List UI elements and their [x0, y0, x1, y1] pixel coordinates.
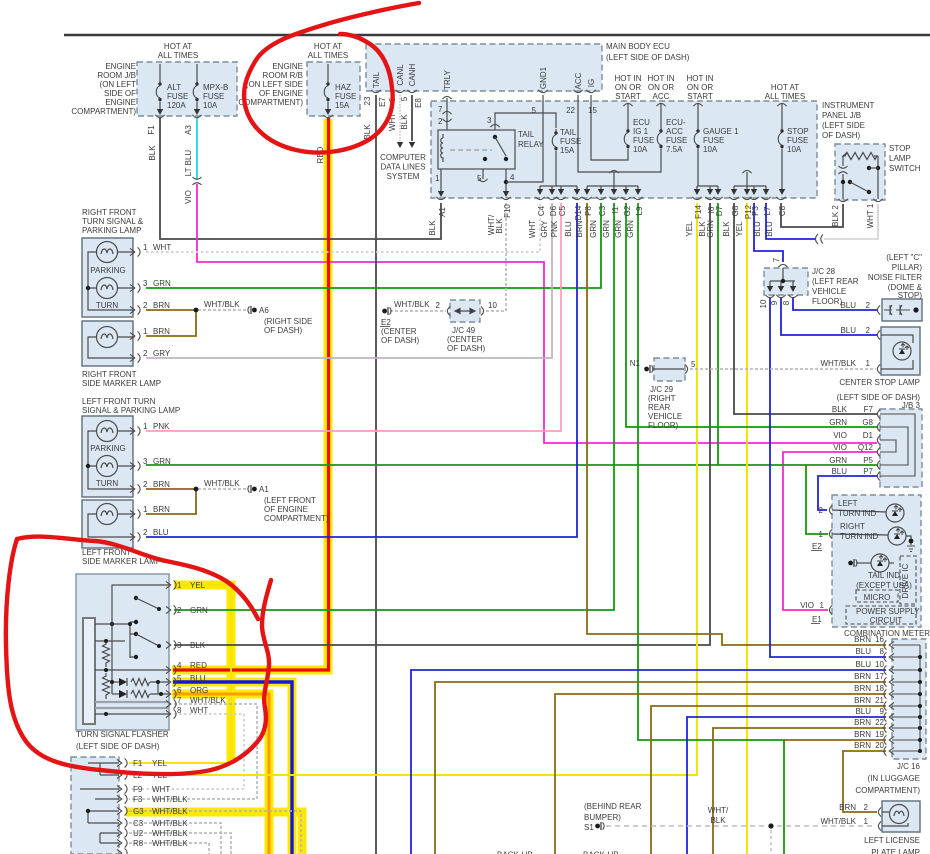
wire GRN D7 riser — [717, 203, 719, 465]
svg-text:PILLAR): PILLAR) — [892, 263, 923, 272]
wire WHT/BLK C3 — [129, 823, 221, 854]
svg-text:BLK: BLK — [495, 218, 504, 234]
relay coil — [441, 134, 443, 162]
svg-text:OF DASH): OF DASH) — [822, 131, 861, 140]
power supply box — [846, 606, 916, 624]
wire BLU P3 to J/C28 pin7 — [754, 203, 783, 262]
svg-text:FUSE: FUSE — [703, 136, 724, 145]
bulb marker LF — [97, 504, 118, 525]
svg-text:ECU: ECU — [633, 118, 650, 127]
relay pin3 wire to TAIL fuse — [495, 113, 556, 130]
svg-text:BLK 2: BLK 2 — [831, 205, 840, 227]
wire GRN lamp2 pin3 long row to J/B3 P5 — [146, 464, 877, 466]
svg-text:BRN: BRN — [854, 672, 871, 681]
flasher internal net — [95, 585, 169, 694]
svg-text:G3: G3 — [133, 807, 144, 816]
highlight over YEL flasher wire — [174, 585, 231, 763]
svg-text:ACC: ACC — [666, 127, 683, 136]
svg-text:GRN: GRN — [153, 279, 171, 288]
svg-text:ALT: ALT — [167, 83, 181, 92]
S1 splice symbol — [595, 822, 604, 830]
wire BLU marker2 pin2 to D14 — [146, 203, 577, 537]
pin TRLY — [442, 96, 451, 99]
svg-text:BLK: BLK — [710, 816, 726, 825]
flasher switch1 — [134, 596, 138, 600]
svg-text:22: 22 — [566, 106, 575, 115]
J/B2 internals — [80, 763, 119, 843]
J/B No.2 box bottom-left — [71, 757, 119, 854]
svg-text:5: 5 — [477, 174, 482, 183]
svg-text:F7: F7 — [864, 405, 874, 414]
svg-text:OF DASH): OF DASH) — [264, 326, 303, 335]
svg-text:(IN LUGGAGE: (IN LUGGAGE — [868, 774, 920, 783]
left front turn signal & parking lamp box — [82, 416, 133, 497]
svg-text:WHT/BLK: WHT/BLK — [820, 817, 856, 826]
svg-text:1: 1 — [864, 817, 869, 826]
wire GRN L9 riser down — [638, 203, 784, 854]
svg-text:LAMP: LAMP — [889, 154, 911, 163]
main body ECU box — [366, 44, 602, 91]
svg-text:ECU-: ECU- — [666, 118, 686, 127]
svg-text:P7: P7 — [863, 467, 873, 476]
bulb turn RF — [97, 278, 118, 299]
svg-text:COMPARTMENT): COMPARTMENT) — [238, 98, 303, 107]
svg-text:E7: E7 — [378, 97, 387, 107]
wire YEL P12 riser to bottom — [746, 203, 748, 854]
wire WHT/BLK S1 dotted to license lamp — [606, 825, 876, 827]
instrument panel J/B box — [431, 101, 817, 198]
svg-text:LT BLU: LT BLU — [184, 150, 193, 177]
svg-text:7.5A: 7.5A — [666, 145, 683, 154]
svg-text:BLU: BLU — [855, 707, 871, 716]
wire BRN pin20 to license lamp — [843, 751, 886, 812]
svg-text:COMPARTMENT): COMPARTMENT) — [264, 514, 329, 523]
svg-text:TURN IND: TURN IND — [838, 509, 876, 518]
svg-text:SIDE MARKER LAMP: SIDE MARKER LAMP — [82, 379, 161, 388]
svg-text:(CENTER: (CENTER — [381, 327, 417, 336]
svg-text:2: 2 — [864, 803, 869, 812]
svg-text:RIGHT: RIGHT — [840, 522, 865, 531]
svg-text:C5: C5 — [558, 205, 567, 216]
fuse MPX-B 10A — [196, 64, 198, 80]
svg-text:10A: 10A — [787, 145, 802, 154]
svg-text:19: 19 — [875, 730, 884, 739]
wire WHT flasher pin8 to F9 — [129, 714, 244, 789]
svg-text:BLK: BLK — [722, 221, 731, 237]
wire BLU J/C28 pin10 to J/C16 pin8 — [770, 298, 886, 657]
svg-text:TAIL IND: TAIL IND — [868, 571, 900, 580]
svg-text:HOT IN: HOT IN — [687, 74, 714, 83]
svg-text:ENGINE: ENGINE — [272, 62, 303, 71]
svg-text:ENGINE: ENGINE — [105, 62, 136, 71]
relay dash link — [450, 149, 492, 151]
svg-text:FUSE: FUSE — [560, 137, 581, 146]
svg-text:GRN: GRN — [706, 220, 715, 238]
svg-text:VIO: VIO — [184, 190, 193, 204]
svg-text:PARKING LAMP: PARKING LAMP — [82, 226, 141, 235]
svg-text:(LEFT SIDE OF DASH): (LEFT SIDE OF DASH) — [606, 53, 690, 62]
svg-text:4: 4 — [177, 661, 182, 670]
wire BRN lamp2 pin2 to splice A1 — [146, 488, 196, 490]
fuse STOP — [781, 104, 783, 127]
svg-text:CIRCUIT: CIRCUIT — [870, 616, 903, 625]
svg-text:(LEFT FRONT: (LEFT FRONT — [264, 496, 316, 505]
svg-text:ORG: ORG — [190, 686, 208, 695]
svg-text:HOT IN: HOT IN — [648, 74, 675, 83]
svg-text:A1: A1 — [259, 485, 269, 494]
svg-text:OF ENGINE: OF ENGINE — [259, 89, 303, 98]
svg-text:P3: P3 — [751, 206, 760, 216]
svg-text:STOP: STOP — [787, 127, 809, 136]
svg-text:WHT/BLK: WHT/BLK — [152, 819, 188, 828]
svg-text:A3: A3 — [184, 125, 193, 135]
svg-text:TURN SIGNAL &: TURN SIGNAL & — [82, 217, 144, 226]
svg-text:D1: D1 — [863, 431, 874, 440]
svg-text:IG 1: IG 1 — [633, 127, 649, 136]
wire BRN splice to marker2 pin1 — [146, 489, 196, 514]
relay pin5 stub — [482, 169, 484, 179]
bus4 G8 P12 P3 L7 — [746, 172, 748, 186]
svg-text:FUSE: FUSE — [666, 136, 687, 145]
svg-text:(LEFT SIDE: (LEFT SIDE — [822, 121, 865, 130]
arrow CANL — [397, 142, 403, 148]
svg-text:E1: E1 — [812, 615, 822, 624]
wire BRN pin18 — [555, 694, 886, 854]
svg-text:GRN: GRN — [829, 418, 847, 427]
red circle around HAZ fuse with tail — [244, 3, 419, 153]
svg-text:G2: G2 — [623, 205, 632, 216]
svg-text:FUSE: FUSE — [787, 136, 808, 145]
svg-text:1: 1 — [143, 422, 148, 431]
dashed WHT/BLK to A1 — [198, 488, 248, 490]
svg-text:BLK: BLK — [148, 145, 157, 161]
svg-text:BLU: BLU — [753, 221, 762, 237]
svg-text:J/C 28: J/C 28 — [812, 267, 836, 276]
svg-text:16: 16 — [875, 635, 884, 644]
svg-text:ALL TIMES: ALL TIMES — [765, 92, 805, 101]
wire BRN lamp1 pin2 to splice — [146, 309, 196, 311]
svg-text:BRN: BRN — [153, 327, 170, 336]
svg-text:I1: I1 — [611, 206, 620, 213]
svg-text:ROOM R/B: ROOM R/B — [263, 71, 303, 80]
svg-text:ALL TIMES: ALL TIMES — [308, 51, 348, 60]
svg-text:HOT IN: HOT IN — [615, 74, 642, 83]
svg-text:FUSE: FUSE — [633, 136, 654, 145]
svg-text:BRN: BRN — [854, 730, 871, 739]
svg-text:1: 1 — [143, 243, 148, 252]
arrow CANH — [409, 142, 415, 148]
svg-text:RED: RED — [190, 661, 207, 670]
svg-text:HOT AT: HOT AT — [771, 83, 799, 92]
svg-text:YEL: YEL — [685, 221, 694, 237]
svg-text:CANH: CANH — [408, 63, 417, 86]
svg-text:(LEFT REAR: (LEFT REAR — [812, 277, 859, 286]
svg-text:WHT: WHT — [190, 706, 208, 715]
LED left turn — [886, 504, 904, 522]
svg-text:1: 1 — [143, 327, 148, 336]
svg-text:J/C 49: J/C 49 — [452, 326, 476, 335]
svg-text:C3: C3 — [598, 205, 607, 216]
svg-text:BACK-UP: BACK-UP — [497, 851, 533, 854]
svg-text:TURN SIGNAL FLASHER: TURN SIGNAL FLASHER — [76, 730, 169, 739]
highlight over flasher ORG wire — [172, 694, 269, 854]
wire BLU L7 to stop lamp switch — [766, 203, 815, 239]
svg-text:RED: RED — [316, 146, 325, 163]
svg-text:BLU: BLU — [564, 221, 573, 237]
svg-text:7: 7 — [177, 696, 182, 705]
svg-text:GRN: GRN — [829, 456, 847, 465]
svg-text:PARKING: PARKING — [90, 266, 125, 275]
svg-text:10A: 10A — [703, 145, 718, 154]
svg-text:(CENTER: (CENTER — [447, 335, 483, 344]
svg-text:D14: D14 — [574, 205, 583, 220]
svg-text:2: 2 — [819, 506, 824, 515]
svg-text:BRN: BRN — [854, 684, 871, 693]
lamp1 internal wires — [88, 252, 134, 310]
wire BLU P7 to meter pin2 — [818, 476, 877, 510]
svg-text:L9: L9 — [635, 206, 644, 215]
relay pin4 wire + GND1 — [505, 169, 507, 194]
svg-text:HOT AT: HOT AT — [314, 42, 342, 51]
wire BRN branch pin22 — [713, 728, 886, 854]
wire CANL dotted — [399, 95, 401, 141]
svg-text:RIGHT FRONT: RIGHT FRONT — [82, 208, 137, 217]
bulb parking LF — [97, 421, 118, 442]
svg-text:15A: 15A — [560, 146, 575, 155]
svg-text:(ON LEFT: (ON LEFT — [100, 80, 137, 89]
svg-text:10: 10 — [875, 660, 884, 669]
svg-text:OF ENGINE: OF ENGINE — [264, 505, 308, 514]
svg-text:22: 22 — [875, 718, 884, 727]
highlight over HAZ RED wire vertical — [172, 119, 328, 670]
svg-text:BLU: BLU — [190, 674, 206, 683]
svg-text:BACK-UP: BACK-UP — [583, 851, 619, 854]
svg-text:TAIL: TAIL — [560, 128, 577, 137]
svg-text:TURN: TURN — [96, 301, 118, 310]
left front side marker lamp box — [82, 500, 133, 548]
svg-text:A1: A1 — [438, 207, 447, 217]
svg-text:GRN: GRN — [626, 220, 635, 238]
flasher switch2 — [136, 634, 159, 646]
svg-text:WHT: WHT — [152, 785, 170, 794]
svg-text:2: 2 — [143, 528, 148, 537]
wire BLU J/C28 pin9 to center stop lamp — [781, 298, 877, 335]
wire BLK G8 riser to J/B3 F7 — [734, 203, 877, 414]
svg-text:ON OR: ON OR — [615, 83, 641, 92]
svg-text:POWER SUPPLY: POWER SUPPLY — [856, 607, 920, 616]
svg-text:REAR: REAR — [648, 403, 670, 412]
svg-text:4: 4 — [510, 173, 515, 182]
svg-text:WHT 1: WHT 1 — [866, 203, 875, 228]
svg-text:(ON LEFT SIDE: (ON LEFT SIDE — [246, 80, 303, 89]
flasher IC links pins7-8 — [95, 702, 169, 708]
wire BRN pin19 — [784, 739, 886, 741]
svg-text:BLK: BLK — [400, 114, 409, 130]
TAIL fuse bus to pins C4 D6 C5 D14 — [555, 153, 557, 186]
tail relay box — [438, 130, 515, 169]
svg-text:BLK: BLK — [428, 220, 437, 236]
svg-text:BLU: BLU — [831, 467, 847, 476]
svg-text:E2: E2 — [381, 318, 391, 327]
break arcs LT BLU / VIO — [193, 177, 202, 185]
svg-text:2: 2 — [177, 606, 182, 615]
svg-text:YEL: YEL — [735, 221, 744, 237]
svg-text:8: 8 — [880, 647, 885, 656]
svg-text:GRN: GRN — [153, 457, 171, 466]
svg-text:YEL: YEL — [152, 759, 168, 768]
svg-text:1: 1 — [177, 581, 182, 590]
wire BLU flasher pin5 thick — [173, 682, 292, 854]
svg-text:20: 20 — [875, 741, 884, 750]
svg-text:120A: 120A — [167, 101, 186, 110]
svg-text:FUSE: FUSE — [335, 92, 356, 101]
dashed WHT/BLK to A6 — [198, 309, 248, 311]
svg-text:LEFT LICENSE: LEFT LICENSE — [864, 836, 920, 845]
svg-text:VIO: VIO — [833, 431, 847, 440]
svg-text:BLU: BLU — [840, 301, 856, 310]
svg-text:START: START — [687, 92, 713, 101]
flasher pin arcs — [166, 580, 176, 589]
svg-text:GRN: GRN — [602, 220, 611, 238]
svg-text:18: 18 — [875, 684, 884, 693]
svg-text:(RIGHT: (RIGHT — [648, 394, 676, 403]
bulb parking RF — [97, 242, 118, 263]
svg-text:1: 1 — [866, 359, 871, 368]
wire BRN branch to pin21 — [651, 706, 886, 854]
svg-text:BRN: BRN — [854, 696, 871, 705]
svg-text:BLU: BLU — [765, 221, 774, 237]
svg-text:GAUGE 1: GAUGE 1 — [703, 127, 739, 136]
pin IG — [586, 90, 595, 93]
wire PNK lamp2 pin1 to C5 — [146, 203, 561, 431]
svg-text:P5: P5 — [863, 456, 873, 465]
wire BRN splice to marker lamp pin1 — [146, 310, 196, 336]
svg-text:PLATE LAMP: PLATE LAMP — [871, 848, 920, 854]
svg-text:GRY: GRY — [540, 220, 549, 238]
svg-text:C8: C8 — [778, 205, 787, 216]
svg-text:BLU: BLU — [153, 528, 169, 537]
svg-text:BRN: BRN — [153, 505, 170, 514]
tail ind LED — [848, 559, 857, 567]
svg-text:SYSTEM: SYSTEM — [387, 172, 420, 181]
svg-text:PNK: PNK — [550, 220, 559, 237]
svg-text:GRN: GRN — [190, 606, 208, 615]
wire VIO from LT BLU to J/B3 pin D1 — [197, 184, 877, 443]
svg-text:2: 2 — [143, 301, 148, 310]
wire BLU10 row — [411, 670, 886, 854]
wire GRN G2 riser to J/B3 G8 — [626, 203, 877, 427]
svg-text:DRIVE IC: DRIVE IC — [901, 563, 910, 598]
svg-text:23: 23 — [363, 96, 372, 105]
svg-text:WHT/BLK: WHT/BLK — [190, 696, 226, 705]
wire CANH — [411, 95, 413, 141]
pin TAIL — [371, 90, 380, 93]
svg-text:STOP: STOP — [889, 144, 911, 153]
fuse TAIL 15A — [552, 129, 557, 153]
svg-text:2: 2 — [438, 117, 443, 126]
svg-text:VIO: VIO — [833, 443, 847, 452]
right front side marker lamp box — [82, 321, 133, 366]
wire YEL L2 row to F14 riser — [129, 203, 697, 775]
svg-text:MICRO: MICRO — [864, 593, 891, 602]
bulb turn LF — [97, 456, 118, 477]
svg-text:2: 2 — [143, 480, 148, 489]
svg-text:5: 5 — [532, 106, 537, 115]
svg-text:5: 5 — [691, 360, 696, 369]
svg-text:GND1: GND1 — [539, 66, 548, 89]
svg-text:J/C 29: J/C 29 — [650, 385, 674, 394]
svg-text:BRN: BRN — [839, 803, 856, 812]
micro box — [856, 590, 898, 602]
svg-text:(LEFT "C": (LEFT "C" — [886, 253, 922, 262]
A6 connector symbol — [248, 306, 257, 314]
svg-text:D6: D6 — [549, 205, 558, 216]
svg-text:5: 5 — [177, 674, 182, 683]
svg-text:WHT/BLK: WHT/BLK — [152, 839, 188, 848]
svg-text:ROOM J/B: ROOM J/B — [97, 71, 136, 80]
svg-text:(BEHIND REAR: (BEHIND REAR — [584, 802, 642, 811]
wire GRN flasher pin2 to I1 — [174, 203, 614, 610]
svg-text:VEHICLE: VEHICLE — [812, 287, 846, 296]
svg-text:WHT: WHT — [153, 243, 171, 252]
wire WHT/BLK flasher pin7 to F3 — [129, 704, 257, 799]
svg-text:10A: 10A — [633, 145, 648, 154]
wire BRN pin17 — [435, 682, 886, 854]
svg-text:TRLY: TRLY — [443, 69, 452, 90]
svg-text:WHT/BLK: WHT/BLK — [152, 795, 188, 804]
svg-text:R8: R8 — [133, 839, 144, 848]
wire RED from HAZ fuse to flasher pin 4 (thick) — [173, 118, 329, 670]
svg-text:PNK: PNK — [153, 422, 170, 431]
svg-text:FLOOR): FLOOR) — [648, 421, 679, 430]
fuse ALT 120A — [159, 64, 161, 80]
svg-text:WHT/BLK: WHT/BLK — [820, 359, 856, 368]
svg-text:2: 2 — [436, 301, 441, 310]
wire WHT/BLK U2 — [129, 833, 231, 854]
svg-text:BLU: BLU — [855, 647, 871, 656]
bus2 pins P8 C3 I1 G2 L9 — [613, 172, 615, 186]
engine room J/B box — [137, 62, 237, 116]
resistor R2 vertical — [103, 673, 110, 699]
svg-text:F9: F9 — [133, 785, 143, 794]
fuse ECU-ACC — [660, 104, 662, 127]
svg-text:YEL: YEL — [190, 581, 206, 590]
relay contact — [483, 135, 508, 161]
svg-text:BRN: BRN — [153, 301, 170, 310]
svg-text:BLU: BLU — [855, 660, 871, 669]
red loop around flasher main stroke — [6, 539, 271, 774]
svg-text:TURN IND: TURN IND — [840, 532, 878, 541]
diode+resistor row pin5 — [110, 678, 169, 686]
pin CANL — [395, 90, 404, 93]
junction dot on S1 wire — [768, 823, 773, 828]
wire BLU9 row — [687, 717, 886, 854]
svg-text:BRN: BRN — [854, 718, 871, 727]
svg-text:VIO: VIO — [800, 601, 814, 610]
svg-text:COMPUTER: COMPUTER — [380, 153, 426, 162]
svg-text:SWITCH: SWITCH — [889, 164, 921, 173]
svg-text:S1: S1 — [584, 823, 594, 832]
svg-text:WHT/BLK: WHT/BLK — [152, 829, 188, 838]
svg-text:RIGHT FRONT: RIGHT FRONT — [82, 370, 137, 379]
svg-text:SIDE OF: SIDE OF — [104, 89, 136, 98]
fuse ECU IG1 — [627, 104, 629, 127]
wire WHT from break to switch pin1 — [824, 204, 878, 239]
drive ic box — [900, 556, 916, 604]
svg-text:U2: U2 — [133, 829, 144, 838]
dashed drop from junction — [770, 830, 772, 854]
svg-text:ACC: ACC — [574, 72, 583, 89]
